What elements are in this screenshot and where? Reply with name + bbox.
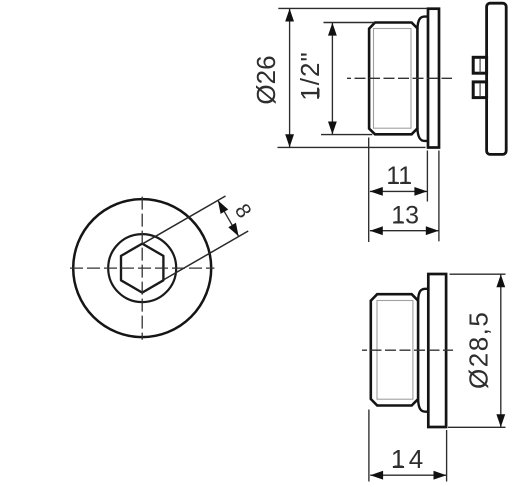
top side view thread root lines [374, 29, 412, 129]
serif foot for 14 [394, 466, 402, 468]
svg-text:Ø28,5: Ø28,5 [463, 311, 493, 389]
svg-text:1/2": 1/2" [295, 51, 325, 100]
svg-text:11: 11 [386, 162, 412, 190]
serif feet for 11 [390, 182, 398, 184]
dim 8 arrow upper [218, 200, 228, 214]
bottom side view centerline [362, 349, 453, 351]
dim 8 dimension line [218, 200, 239, 236]
top side view body outline [369, 23, 417, 135]
svg-text:Ø26: Ø26 [251, 55, 281, 104]
dim 8 extension line upper [143, 196, 226, 244]
serif foot for 1 of 1/2 [317, 89, 319, 97]
dim 14 right extension line [446, 430, 448, 482]
bottom side view neck upper curve [418, 289, 429, 301]
dim Ø28,5 extension line bottom [448, 426, 506, 428]
dim Ø26 dimension line [289, 9, 291, 148]
dim Ø28,5 arrow up [496, 274, 505, 287]
dim 14 left extension line [368, 410, 370, 482]
dim 13 arrow left [370, 226, 383, 235]
dim 11-13 left extension line [368, 138, 370, 243]
dim 14 arrow left [370, 471, 383, 480]
right profile view rounded body [487, 3, 507, 154]
bottom side view thread root lines [377, 301, 413, 400]
dim Ø26 arrow down [285, 134, 294, 147]
dim 8 extension line lower [164, 231, 249, 280]
dim 13 arrow right [426, 226, 439, 235]
dim 14 dimension line [370, 474, 446, 476]
hex socket [121, 244, 163, 293]
dim 1/2 extension line top [324, 22, 375, 24]
top side view neck lower curve [417, 128, 428, 141]
front view horizontal centerline [70, 267, 215, 269]
dim 11 arrow left [370, 187, 383, 196]
dim 11 right extension line [426, 151, 428, 202]
bottom side view flange [428, 274, 446, 427]
dim 1/2 dimension line [331, 23, 333, 135]
dim Ø26 extension line bottom [278, 146, 426, 148]
front view vertical centerline [141, 197, 143, 340]
dim 11 dimension line [370, 190, 427, 192]
bottom side view body outline [371, 294, 418, 405]
dim 11 arrow right [414, 187, 427, 196]
front view counterbore circle [108, 234, 176, 302]
bottom side view neck lower curve [418, 399, 429, 412]
right profile tab upper [473, 57, 486, 73]
right profile tab inner line lower [479, 83, 481, 97]
right profile tab inner line upper [479, 59, 481, 73]
top side view flange [428, 9, 439, 148]
dim 14 arrow right [434, 471, 447, 480]
dim 13 dimension line [370, 230, 439, 232]
front view outer circle (flange Ø26) [73, 199, 211, 337]
dim 8 arrow lower [228, 223, 238, 237]
dim Ø28,5 arrow down [496, 414, 505, 427]
dim 1/2 arrow up [328, 23, 337, 36]
dim 1/2 extension line bottom [321, 134, 372, 136]
dim 13 right extension line [438, 151, 440, 242]
dim Ø28,5 dimension line [500, 274, 502, 427]
top side view neck upper curve [417, 17, 428, 29]
right profile tab lower [473, 82, 486, 98]
top side view centerline [347, 77, 452, 79]
serif foot for 13 [395, 221, 403, 223]
dim Ø26 extension line top [278, 7, 427, 9]
dim Ø28,5 extension line top [450, 273, 506, 275]
dim 1/2 arrow down [328, 122, 337, 135]
dim Ø26 arrow up [285, 9, 294, 22]
svg-text:14: 14 [391, 444, 427, 474]
svg-text:13: 13 [391, 201, 419, 229]
